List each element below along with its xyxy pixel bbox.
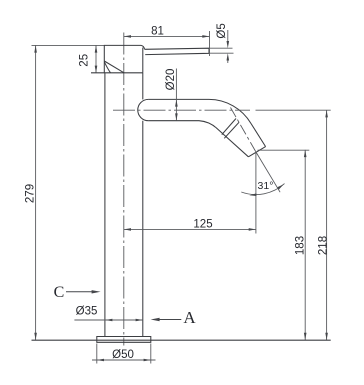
dimension 25 line: [95, 45, 97, 72]
top extension line: [32, 44, 105, 46]
rod end extension line: [209, 31, 211, 56]
handle sleeve rim arc: [105, 62, 111, 73]
body column right edge upper: [142, 73, 144, 100]
handle sleeve diagonal: [104, 61, 124, 73]
svg-text:125: 125: [193, 219, 212, 231]
spout horizontal centerline: [113, 109, 250, 111]
dimension 183 line: [304, 150, 306, 340]
svg-text:218: 218: [318, 236, 330, 255]
aerator joint line 1: [222, 119, 236, 135]
spout axis diagonal extension: [256, 152, 280, 192]
svg-text:279: 279: [25, 184, 37, 203]
angle 31 arc: [241, 184, 284, 195]
dimension diam50 line: [92, 359, 156, 361]
aerator joint line 2: [224, 122, 239, 138]
dimension 125 line: [124, 228, 256, 230]
housing bottom joint line: [91, 72, 143, 74]
svg-text:Ø35: Ø35: [76, 306, 98, 318]
extension line 218: [256, 109, 331, 111]
dimension diam5 line and arrows: [227, 30, 229, 42]
svg-text:A: A: [183, 308, 196, 327]
svg-text:81: 81: [151, 26, 164, 38]
spout tip vertical extension: [255, 152, 257, 234]
arrow A: [158, 319, 181, 321]
dimension 279 line: [35, 45, 37, 340]
spout inclined axis centerline: [231, 108, 256, 152]
spout top outline: [148, 99, 265, 146]
dimension diam50 extension lines: [96, 344, 98, 364]
spout bottom outline: [148, 121, 248, 157]
dimension 81 line: [124, 35, 210, 37]
arrow C: [66, 291, 93, 293]
svg-text:183: 183: [295, 236, 307, 255]
base plate: [97, 337, 151, 343]
body column right edge lower: [142, 121, 144, 337]
svg-text:Ø5: Ø5: [216, 23, 228, 38]
svg-text:31°: 31°: [258, 180, 274, 192]
extension line 183: [258, 149, 310, 151]
dimension 218 line: [326, 110, 328, 340]
spout outlet face: [248, 147, 265, 157]
dimension diam5 extension lines: [210, 47, 233, 49]
svg-text:C: C: [54, 284, 65, 301]
mounting surface line: [32, 339, 331, 341]
dimension diam20 line: [175, 69, 177, 121]
spout tube fill mask: [138, 99, 266, 156]
dimension diam35 line: [74, 319, 142, 321]
svg-text:25: 25: [79, 54, 91, 67]
svg-text:Ø50: Ø50: [112, 349, 134, 361]
spout dome cap arc: [138, 99, 149, 120]
vertical centerline of body: [123, 33, 125, 346]
cartridge housing outline: [104, 45, 144, 72]
svg-text:Ø20: Ø20: [165, 69, 177, 91]
lever rod: [145, 48, 209, 54]
body column left edge: [104, 73, 106, 337]
